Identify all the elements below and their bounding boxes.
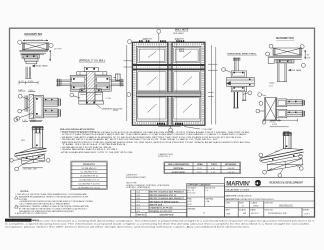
svg-text:BP RATING: BP RATING <box>225 163 237 166</box>
svg-text:1 1/2: 1 1/2 <box>19 81 23 83</box>
svg-text:6: 6 <box>131 195 132 197</box>
svg-text:4 9/16: 4 9/16 <box>28 90 33 92</box>
svg-text:1/2″ GYP: 1/2″ GYP <box>54 49 63 51</box>
svg-text:CHANGED 11-97 PR 104: CHANGED 11-97 PR 104 <box>150 207 174 210</box>
svg-text:APP:: APP: <box>226 209 231 212</box>
svg-text:SIZE:: SIZE: <box>239 203 244 205</box>
svg-text:EVERGREEN (CSMT): EVERGREEN (CSMT) <box>126 177 146 179</box>
svg-text:MULL DESIGNATION: MULL DESIGNATION <box>168 163 189 166</box>
svg-text:1 1/2: 1 1/2 <box>269 85 273 87</box>
svg-text:STRUCT FASTENERS EVENLY APPLIE: STRUCT FASTENERS EVENLY APPLIED AT THE R… <box>62 133 248 136</box>
svg-text:SEPARATED NOTCHED: SEPARATED NOTCHED <box>102 108 124 111</box>
svg-text:0001951(01): 0001951(01) <box>279 204 293 207</box>
svg-text:±.015 .010: ±.015 .010 <box>187 193 195 195</box>
svg-text:GYP: GYP <box>307 57 312 59</box>
svg-text:REV PR: 71304 RLS 0415 PRODUCT: REV PR: 71304 RLS 0415 PRODUCT <box>150 197 185 200</box>
svg-text:MULL NOTE: MULL NOTE <box>175 30 189 32</box>
svg-text:REV PR: 71504 RLS 0401 PRODUCT: REV PR: 71504 RLS 0401 PRODUCT <box>150 191 185 194</box>
svg-text:4: 4 <box>131 201 132 203</box>
svg-text:SPAN: SPAN <box>197 163 203 166</box>
svg-text:MASONRY B/O: MASONRY B/O <box>276 37 294 40</box>
svg-text:± NA: ± NA <box>205 200 210 203</box>
svg-text:1 1/2: 1 1/2 <box>22 120 26 122</box>
svg-text:RESEARCH & DEVELOPMENT: RESEARCH & DEVELOPMENT <box>270 182 304 185</box>
svg-text:4 9/16: 4 9/16 <box>272 124 277 126</box>
svg-text:UPDATED 4-01 PR 0117: UPDATED 4-01 PR 0117 <box>150 210 173 213</box>
svg-text:7: 7 <box>131 192 132 194</box>
svg-text:4 9/16: 4 9/16 <box>28 81 33 83</box>
svg-text:DWG NO:: DWG NO: <box>265 203 274 205</box>
svg-text:4. ALSO APPLIED TO OTHER UNIT: 4. ALSO APPLIED TO OTHER UNITS. <box>15 212 48 215</box>
svg-text:DWG NO.: DWG NO. <box>265 210 274 212</box>
svg-text:04-0: 04-0 <box>137 192 140 194</box>
svg-text:CLASS:: CLASS: <box>250 202 258 205</box>
svg-text:4 1/2: 4 1/2 <box>211 168 215 170</box>
svg-text:5: 5 <box>131 198 132 200</box>
svg-text:1 OF 1: 1 OF 1 <box>304 214 311 216</box>
svg-text:DWG TYPE: INSTALLATION: DWG TYPE: INSTALLATION <box>226 195 252 198</box>
svg-text:03-9: 03-9 <box>137 195 140 197</box>
svg-text:MASONRY B/O: MASONRY B/O <box>24 33 42 36</box>
svg-text:71 3/4: 71 3/4 <box>197 168 202 170</box>
svg-text:UL DBLHNG 12: UL DBLHNG 12 <box>82 168 98 170</box>
svg-text:COLLECTION: ULTIMATE: COLLECTION: ULTIMATE <box>226 188 250 191</box>
svg-text:1 7/8: 1 7/8 <box>211 172 215 174</box>
svg-text:CHK:: CHK: <box>226 203 231 205</box>
svg-text:SHIM AT MULL ENDS AND AT BUTTE: SHIM AT MULL ENDS AND AT BUTTER INTERSEC… <box>62 138 219 141</box>
svg-text:+50/-50: +50/-50 <box>227 172 235 174</box>
svg-text:UL DBLHNG TR 12: UL DBLHNG TR 12 <box>80 176 99 178</box>
svg-text:in complete, a speed drawing f: in complete, a speed drawing forecast. T… <box>5 223 311 226</box>
svg-text:FRAC:: FRAC: <box>187 198 193 201</box>
svg-text:THICK: THICK <box>211 164 218 166</box>
svg-text:A.M.: A.M. <box>227 213 232 216</box>
svg-text:3: 3 <box>131 204 132 206</box>
svg-text:REV BACK OF DWGS 0312 NO: REV BACK OF DWGS 0312 NO <box>150 200 180 203</box>
svg-text:HEAD JAMB: HEAD JAMB <box>36 64 49 67</box>
svg-text:COMPONENT CLEARANCES: COMPONENT CLEARANCES <box>187 183 211 186</box>
svg-text:DESCRIPTION: DESCRIPTION <box>160 215 174 217</box>
svg-text:DECIMALS:: DECIMALS: <box>187 186 197 189</box>
svg-text:02-1: 02-1 <box>137 201 140 203</box>
svg-text:UL DBLHNG TR 12 (12): UL DBLHNG TR 12 (12) <box>78 187 101 189</box>
svg-text:recognize, please deliver this: recognize, please deliver this offer pro… <box>5 225 251 228</box>
svg-text:DESCRIPTION: INSTALLATION CSM: DESCRIPTION: INSTALLATION CSMT/2W3H MULL… <box>226 198 275 201</box>
svg-text:VERTICAL 2″ LVL MULL: VERTICAL 2″ LVL MULL <box>79 59 106 62</box>
svg-text:1/2″: 1/2″ <box>307 54 311 56</box>
svg-text:04C4.15: 04C4.15 <box>251 213 259 215</box>
svg-text:11-9: 11-9 <box>137 208 140 210</box>
svg-text:PRODUCTS: PRODUCTS <box>83 164 95 166</box>
svg-text:+50/-50: +50/-50 <box>227 168 235 170</box>
svg-text:VERTICAL: VERTICAL <box>173 167 184 170</box>
svg-text:ANGLE DEG:: ANGLE DEG: <box>205 186 216 189</box>
svg-text:2″ LVL: 2″ LVL <box>106 98 111 100</box>
svg-text:UL DBLHNG CO 171: UL DBLHNG CO 171 <box>79 180 99 182</box>
svg-text:± .5: ± .5 <box>205 190 208 192</box>
svg-text:MULLION INSTALLATION NOTES: MULLION INSTALLATION NOTES <box>60 128 95 131</box>
svg-text:SHEET: SHEET <box>303 210 310 212</box>
svg-text:Please note: this document is: Please note: this document is a working … <box>33 220 315 223</box>
svg-text:NA: NA <box>243 212 246 215</box>
svg-text:HORIZONTAL DIRECT MULL: HORIZONTAL DIRECT MULL <box>227 53 257 56</box>
svg-text:UCA/TR(L), UCA/TR(N)(S): UCA/TR(L), UCA/TR(N)(S) <box>126 186 150 189</box>
svg-text:DATE:: DATE: <box>250 209 256 212</box>
svg-text:4 9/16 MULL DIM: 4 9/16 MULL DIM <box>22 168 37 170</box>
svg-text:SILL: SILL <box>275 151 280 153</box>
svg-text:2: 2 <box>131 208 132 210</box>
svg-text:- ATTACH HEAD AND MASONRY CLI: - ATTACH HEAD AND MASONRY CLIPS TO THE U… <box>60 151 134 154</box>
svg-text:REV PR: 69204 RLS 0727 CL: REV PR: 69204 RLS 0727 CL <box>150 194 178 197</box>
svg-text:14 1/2 (RO) GYP BD: 14 1/2 (RO) GYP BD <box>26 40 44 42</box>
svg-text:- SHIM BEHIND EACH MULL POINT: - SHIM BEHIND EACH MULL POINT. <box>60 148 119 151</box>
svg-text:MATERIAL:: MATERIAL: <box>187 208 196 211</box>
svg-text:NOTED? MO. 4: NOTED? MO. 4 <box>158 156 170 158</box>
svg-text:W.: W. <box>203 213 205 215</box>
svg-text:AIR/WATER REQUIREMENTS, REFER: AIR/WATER REQUIREMENTS, REFER TO THE INS… <box>19 195 89 198</box>
svg-text:SEE SHEET: SEE SHEET <box>173 33 184 35</box>
svg-text:1 1/2: 1 1/2 <box>18 90 22 92</box>
svg-text:ADD PR 0214: ADD PR 0214 <box>150 204 164 207</box>
svg-text:HORIZONTAL: HORIZONTAL <box>172 171 186 174</box>
svg-text:NOTES:: NOTES: <box>21 191 30 193</box>
svg-text:MATERIAL:: MATERIAL: <box>205 198 214 201</box>
svg-text:1: 1 <box>131 211 132 213</box>
svg-text:W: W <box>180 50 182 52</box>
svg-text:5 1/8″ MULL O.C.: 5 1/8″ MULL O.C. <box>158 125 174 127</box>
svg-text:HWD: HWD <box>254 206 259 208</box>
svg-text:±1/32: ±1/32 <box>187 204 191 206</box>
svg-text:MARVIN’: MARVIN’ <box>226 180 250 187</box>
svg-text:UL DBLHNG P 12: UL DBLHNG P 12 <box>81 172 98 174</box>
svg-text:71 1/4: 71 1/4 <box>197 172 202 174</box>
svg-text:01-2: 01-2 <box>137 204 140 206</box>
svg-text:SUPERSEDES: SUP: SUPERSEDES: SUP <box>268 213 288 215</box>
svg-text:04-9: 04-9 <box>137 211 140 213</box>
svg-text:B: B <box>242 206 244 208</box>
svg-text:SILL: SILL <box>21 140 26 142</box>
svg-text:03-4: 03-4 <box>137 198 140 200</box>
svg-text:SIDE JAMB: SIDE JAMB <box>291 69 302 72</box>
svg-text:UL DBLHNG P 12 (TR): UL DBLHNG P 12 (TR) <box>78 183 100 185</box>
svg-text:4 9/16: 4 9/16 <box>31 120 36 122</box>
svg-text:SCALE:: SCALE: <box>239 209 247 212</box>
svg-text:REF NO: REF NO <box>137 215 145 217</box>
